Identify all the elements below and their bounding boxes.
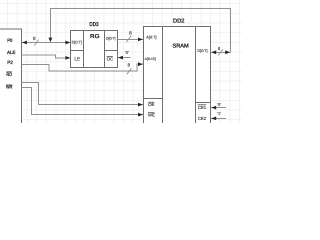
wire: constant 0 to DD2 CE1 [211, 107, 226, 109]
svg-text:WE: WE [148, 113, 155, 118]
arrow into DD2 A[8:15] [138, 62, 143, 66]
svg-text:CE1: CE1 [198, 105, 207, 110]
svg-text:DD2: DD2 [173, 18, 184, 24]
grid background [0, 0, 242, 123]
junction arrow onto P0 bus [49, 38, 53, 43]
svg-text:RD: RD [6, 72, 12, 78]
wire: DD2 data bus D[0:7] (bidirectional) [211, 51, 230, 53]
bus width slash on Q bus [126, 36, 131, 43]
arrow into DD2 CE2 [211, 117, 216, 121]
svg-text:8: 8 [128, 63, 131, 68]
pin label RD (active low) [6, 72, 12, 78]
svg-text:Q[0:7]: Q[0:7] [106, 36, 116, 40]
svg-text:SRAM: SRAM [173, 44, 189, 50]
arrow toward feedback wire [225, 50, 230, 54]
wire: RD to DD2 OE [22, 83, 143, 105]
svg-text:CE2: CE2 [198, 116, 207, 121]
svg-text:‘0’: ‘0’ [217, 102, 221, 107]
arrow into DD2 OE [138, 103, 143, 107]
pin WE (active low) of DD2 [148, 113, 155, 118]
svg-text:D[0:7]: D[0:7] [72, 40, 82, 44]
svg-text:LE: LE [74, 57, 81, 63]
svg-text:8: 8 [33, 36, 36, 41]
pin OC (active low) of DD3 [107, 56, 114, 61]
svg-text:OE: OE [148, 102, 154, 107]
wire: WR to DD2 WE [22, 87, 143, 114]
svg-text:D[0:7]: D[0:7] [197, 49, 207, 53]
svg-text:A[8:15]: A[8:15] [145, 57, 156, 61]
wire: constant 0 to DD3 OC [118, 57, 131, 59]
wire: P0 address/data bus to DD3 D[0:7] [22, 42, 70, 44]
pin OE (active low) of DD2 [148, 102, 154, 107]
arrow into DD2 WE [138, 113, 143, 117]
wire: DD3 Q[0:7] to DD2 A[0:7] [118, 38, 143, 40]
svg-text:A[0:7]: A[0:7] [146, 34, 156, 39]
arrow into DD3 OC [118, 56, 123, 60]
arrow into MCU P0 [22, 41, 27, 45]
arrow into DD2 CE1 [211, 106, 216, 110]
wire: constant 1 to DD2 CE2 [211, 117, 226, 119]
svg-text:P0: P0 [7, 38, 12, 44]
svg-text:RG: RG [90, 34, 100, 40]
svg-text:ALE: ALE [7, 50, 16, 56]
bus width slash on data bus [218, 49, 222, 55]
microcontroller box (left, partially off-canvas) [0, 29, 22, 125]
wire: feedback bus from data bus to P0 bus (top) [50, 8, 230, 52]
bus width slash on P0 bus [34, 40, 38, 46]
arrow into DD3 LE [65, 56, 70, 60]
svg-text:P2: P2 [7, 60, 13, 66]
svg-text:‘1’: ‘1’ [217, 111, 221, 116]
pin label WR (active low) [6, 85, 13, 91]
register DD3 box [71, 30, 118, 68]
arrow into DD2 A[0:7] [138, 38, 143, 42]
wire: P2 address bus to DD2 A[8:15] [22, 64, 143, 71]
wire: ALE to DD3 LE [22, 55, 71, 58]
SRAM DD2 box [144, 27, 211, 127]
bus width slash on P2 bus [127, 68, 132, 74]
arrow into DD3 D[0:7] [65, 41, 70, 45]
svg-text:OC: OC [107, 56, 114, 61]
pin CE1 (active low) of DD2 [198, 105, 207, 110]
svg-text:DD3: DD3 [89, 22, 98, 28]
svg-text:‘0’: ‘0’ [125, 50, 129, 55]
svg-text:8: 8 [129, 31, 132, 37]
arrow into DD2 D[0:7] [211, 50, 216, 54]
